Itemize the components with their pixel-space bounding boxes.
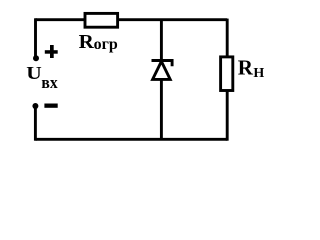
svg-text:R: R (238, 55, 254, 79)
svg-text:U: U (26, 64, 42, 84)
svg-text:R: R (79, 31, 94, 52)
svg-text:Н: Н (253, 66, 264, 81)
svg-text:вх: вх (41, 72, 58, 92)
svg-text:огр: огр (94, 36, 118, 53)
